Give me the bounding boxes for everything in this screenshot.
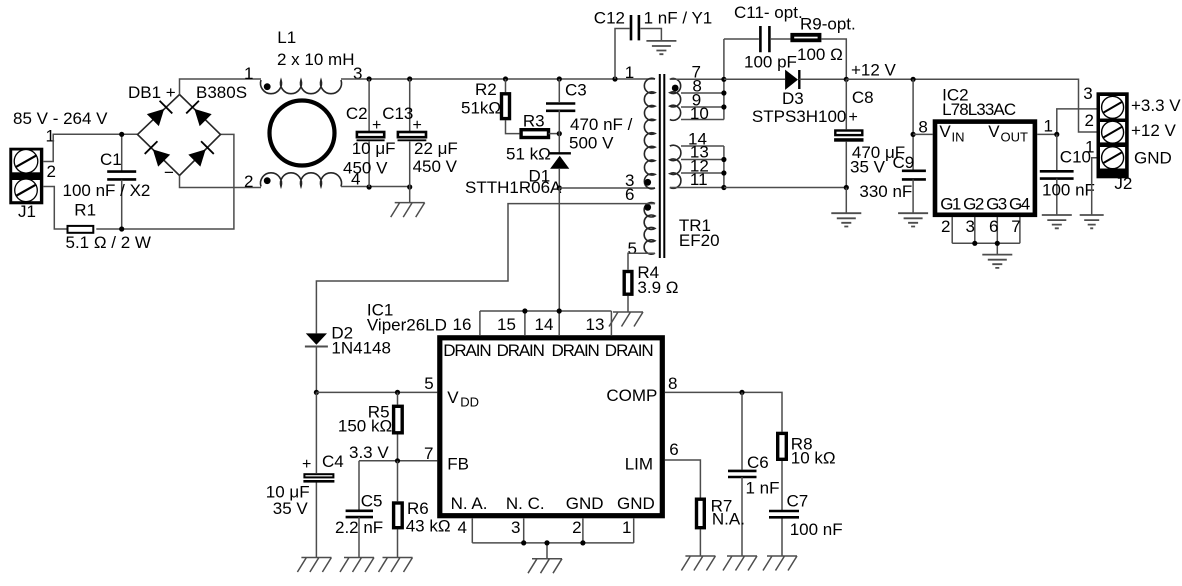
wire +12V rail to J2 pin2 bbox=[846, 79, 1096, 132]
svg-text:C7: C7 bbox=[787, 491, 809, 510]
svg-text:C13: C13 bbox=[382, 104, 413, 123]
svg-text:N. A.: N. A. bbox=[451, 494, 488, 513]
DB1 diode bottom-left bbox=[145, 141, 171, 167]
svg-text:V: V bbox=[939, 122, 951, 141]
node IC1 pin3 bbox=[521, 540, 526, 545]
svg-text:DRAIN: DRAIN bbox=[605, 341, 654, 360]
svg-text:1N4148: 1N4148 bbox=[331, 339, 391, 358]
svg-text:R2: R2 bbox=[475, 80, 497, 99]
svg-text:11: 11 bbox=[690, 170, 708, 189]
resistor R8 bbox=[778, 433, 787, 556]
wire D1 node to drain bus bbox=[558, 188, 560, 311]
secondary bus pins 7-10 bbox=[723, 39, 725, 120]
svg-text:GND: GND bbox=[1134, 149, 1172, 168]
svg-text:2 x 10 mH: 2 x 10 mH bbox=[277, 50, 354, 69]
svg-text:100 nF / X2: 100 nF / X2 bbox=[63, 181, 151, 200]
node drain pin15 bbox=[522, 308, 527, 313]
wire C8 to ground bbox=[845, 188, 847, 214]
svg-text:IN: IN bbox=[952, 130, 965, 145]
svg-text:51 kΩ: 51 kΩ bbox=[506, 145, 551, 164]
resistor R4 bbox=[624, 253, 655, 312]
svg-text:STTH1R06A: STTH1R06A bbox=[465, 178, 562, 197]
svg-text:1: 1 bbox=[1044, 117, 1053, 136]
node pin8 bbox=[721, 90, 726, 95]
node TR1 pin1 / C12 bbox=[612, 76, 617, 81]
svg-text:330 nF: 330 nF bbox=[859, 182, 912, 201]
svg-text:1: 1 bbox=[622, 518, 631, 537]
resistor R5 bbox=[394, 392, 403, 460]
svg-text:3.9 Ω: 3.9 Ω bbox=[637, 278, 678, 297]
node C13 top bbox=[407, 76, 412, 81]
capacitor C12 bbox=[615, 15, 661, 79]
svg-text:V: V bbox=[988, 122, 1000, 141]
svg-text:85 V - 264 V: 85 V - 264 V bbox=[13, 109, 108, 128]
svg-text:35 V: 35 V bbox=[273, 499, 309, 518]
wire Vin stub bbox=[913, 133, 933, 135]
svg-text:1 nF / Y1: 1 nF / Y1 bbox=[644, 9, 713, 28]
svg-text:GND: GND bbox=[566, 494, 604, 513]
svg-text:43 kΩ: 43 kΩ bbox=[406, 517, 451, 536]
op-amp IC2 body bbox=[935, 122, 1035, 215]
node J1 top bbox=[119, 132, 124, 137]
svg-text:3: 3 bbox=[966, 217, 975, 236]
node Vout / C10 bbox=[1054, 132, 1059, 137]
svg-text:R6: R6 bbox=[407, 499, 429, 518]
svg-text:C3: C3 bbox=[565, 81, 587, 100]
svg-text:DRAIN: DRAIN bbox=[443, 341, 491, 360]
node C13 bottom bbox=[407, 184, 412, 189]
wire LIM bbox=[665, 460, 700, 556]
node R3 / C3 bbox=[557, 131, 562, 136]
svg-text:2: 2 bbox=[244, 172, 253, 191]
svg-text:470 nF /: 470 nF / bbox=[570, 115, 633, 134]
svg-text:V: V bbox=[447, 388, 459, 407]
transformer TR1 secondary winding B bbox=[670, 145, 681, 188]
svg-text:500 V: 500 V bbox=[569, 134, 614, 153]
svg-text:DB1 +: DB1 + bbox=[128, 83, 176, 102]
TR1 tap pin 13 bbox=[681, 159, 724, 161]
earth ground C9 bbox=[898, 213, 928, 226]
svg-text:150 kΩ: 150 kΩ bbox=[338, 417, 392, 436]
svg-text:15: 15 bbox=[497, 315, 516, 334]
svg-text:100 pF: 100 pF bbox=[744, 53, 797, 72]
bridge rectifier DB1 diamond bbox=[138, 95, 221, 176]
ground IC1 bbox=[528, 559, 562, 574]
svg-text:R9-opt.: R9-opt. bbox=[800, 15, 856, 34]
svg-text:STPS3H100: STPS3H100 bbox=[752, 107, 847, 126]
svg-text:13: 13 bbox=[586, 315, 605, 334]
resistor R1 bbox=[68, 226, 94, 233]
capacitor C8 electrolytic bbox=[834, 79, 863, 187]
wire secondary return pin11 to C8 bbox=[724, 187, 846, 189]
capacitor C2 electrolytic bbox=[357, 79, 385, 187]
ground C7 bbox=[763, 556, 797, 571]
svg-text:+12 V: +12 V bbox=[1131, 121, 1177, 140]
svg-text:7: 7 bbox=[424, 444, 433, 463]
capacitor C1 bbox=[107, 134, 136, 229]
svg-text:+: + bbox=[372, 117, 381, 134]
node FB / R6 bbox=[395, 458, 400, 463]
svg-text:+: + bbox=[302, 456, 311, 473]
svg-text:J1: J1 bbox=[18, 202, 36, 221]
svg-text:6: 6 bbox=[989, 217, 998, 236]
svg-text:L78L33AC: L78L33AC bbox=[942, 100, 1016, 119]
svg-text:100 Ω: 100 Ω bbox=[797, 45, 843, 64]
wire DC+ rail L1 pin3 to TR1 pin1 bbox=[341, 78, 655, 80]
svg-text:LIM: LIM bbox=[625, 455, 653, 474]
node pin12 bbox=[721, 170, 726, 175]
TR1 tap pin 8 bbox=[681, 92, 724, 94]
capacitor C6 bbox=[728, 392, 757, 556]
svg-text:35 V: 35 V bbox=[850, 158, 886, 177]
TR1 core lines bbox=[660, 74, 665, 258]
svg-text:2: 2 bbox=[572, 518, 581, 537]
TR1 secondary phase dot bbox=[672, 85, 679, 92]
wire TR1 pin6 to D2 bbox=[316, 204, 655, 334]
wire J1 pin1 to bridge AC1 bbox=[43, 134, 137, 161]
svg-text:100 nF: 100 nF bbox=[790, 520, 843, 539]
wire bridge plus to L1 pin1 bbox=[180, 79, 262, 95]
node C9 / Vin bbox=[911, 77, 916, 82]
capacitor C5 bbox=[346, 461, 373, 558]
node C3 top bbox=[557, 76, 562, 81]
TR1 tap pin 7 bbox=[670, 78, 724, 80]
ground R6 bbox=[379, 558, 413, 573]
svg-text:1: 1 bbox=[244, 64, 253, 83]
svg-text:16: 16 bbox=[453, 315, 472, 334]
svg-text:10 kΩ: 10 kΩ bbox=[791, 449, 836, 468]
drain bus bbox=[480, 311, 612, 335]
svg-text:N.A.: N.A. bbox=[712, 510, 745, 529]
svg-text:G1 G2 G3 G4: G1 G2 G3 G4 bbox=[940, 195, 1030, 214]
svg-text:L1: L1 bbox=[277, 28, 296, 47]
capacitor C11 optional bbox=[724, 26, 791, 52]
node pin13 bbox=[721, 157, 726, 162]
svg-text:R3: R3 bbox=[523, 112, 545, 131]
connector J2 bbox=[1097, 92, 1129, 178]
svg-text:100 nF: 100 nF bbox=[1042, 181, 1095, 200]
node C2 bottom bbox=[367, 184, 372, 189]
svg-text:8: 8 bbox=[918, 118, 927, 137]
svg-text:10 μF: 10 μF bbox=[352, 139, 396, 158]
svg-text:6: 6 bbox=[625, 185, 634, 204]
diode D1 bbox=[550, 153, 571, 188]
svg-text:Viper26LD: Viper26LD bbox=[367, 316, 447, 335]
wire COMP bbox=[665, 392, 782, 431]
ground R7 bbox=[681, 556, 715, 571]
svg-text:3: 3 bbox=[353, 64, 362, 83]
ground C6 bbox=[723, 556, 757, 571]
node C8 bottom bbox=[844, 185, 849, 190]
svg-text:−: − bbox=[164, 163, 174, 182]
diode D3 bbox=[724, 70, 846, 90]
TR1 tap pin 11 bbox=[670, 187, 724, 189]
ground primary DC- bbox=[391, 203, 425, 218]
svg-text:+12 V: +12 V bbox=[851, 61, 897, 80]
svg-text:C12: C12 bbox=[594, 9, 625, 28]
transformer TR1 secondary winding A bbox=[670, 79, 681, 121]
svg-text:3: 3 bbox=[1083, 84, 1092, 103]
DB1 diode top-right bbox=[186, 101, 212, 127]
svg-text:EF20: EF20 bbox=[679, 231, 720, 250]
earth ground C12 bbox=[646, 41, 676, 54]
svg-text:N. C.: N. C. bbox=[506, 494, 545, 513]
node R5 top bbox=[395, 390, 400, 395]
wire DC- rail L1 pin4 bbox=[341, 186, 410, 188]
node pin7 bbox=[721, 77, 726, 82]
svg-text:450 V: 450 V bbox=[343, 159, 388, 178]
earth ground C10 bbox=[1042, 215, 1072, 228]
TR1 tap pin 10 bbox=[681, 119, 724, 121]
capacitor C4 electrolytic bbox=[303, 474, 334, 482]
capacitor C13 electrolytic bbox=[398, 79, 427, 187]
ground C5 bbox=[340, 558, 374, 573]
svg-text:+3.3 V: +3.3 V bbox=[1131, 96, 1181, 115]
capacitor C9 bbox=[902, 79, 926, 213]
svg-text:450 V: 450 V bbox=[413, 157, 458, 176]
svg-text:C4: C4 bbox=[322, 452, 344, 471]
svg-text:C1: C1 bbox=[100, 150, 122, 169]
wire D1 node to TR1 pin3 bbox=[559, 187, 655, 189]
ground C4 bbox=[297, 558, 331, 573]
earth ground C8 bbox=[831, 213, 861, 226]
capacitor C7 bbox=[769, 511, 799, 517]
TR1 tap pin 14 bbox=[681, 145, 724, 147]
svg-text:7: 7 bbox=[1011, 217, 1020, 236]
svg-text:J2: J2 bbox=[1114, 174, 1132, 193]
svg-text:5: 5 bbox=[628, 239, 637, 258]
svg-text:22 μF: 22 μF bbox=[414, 139, 458, 158]
resistor R6 bbox=[394, 461, 403, 558]
node Vdd bbox=[314, 390, 319, 395]
node Vin pin8 bbox=[911, 132, 916, 137]
svg-text:R1: R1 bbox=[74, 201, 96, 220]
svg-text:10: 10 bbox=[690, 104, 709, 123]
svg-text:C11- opt.: C11- opt. bbox=[734, 3, 803, 22]
svg-text:B380S: B380S bbox=[196, 83, 247, 102]
TR1 tap pin 12 bbox=[681, 172, 724, 174]
resistor R7 bbox=[697, 499, 705, 528]
svg-text:4: 4 bbox=[458, 518, 467, 537]
svg-text:3: 3 bbox=[511, 518, 520, 537]
wire C13 to ground bbox=[409, 187, 411, 203]
svg-text:DD: DD bbox=[460, 395, 479, 410]
svg-text:COMP: COMP bbox=[606, 386, 657, 405]
svg-text:+: + bbox=[849, 109, 858, 126]
svg-text:5: 5 bbox=[424, 374, 433, 393]
svg-text:C8: C8 bbox=[852, 88, 874, 107]
earth ground IC2 bbox=[982, 255, 1012, 268]
node drain pin14 bbox=[557, 308, 562, 313]
L1 top phase dot bbox=[264, 83, 271, 90]
wire Vout to J2 pin3 bbox=[1037, 109, 1096, 134]
svg-text:1 nF: 1 nF bbox=[746, 479, 780, 498]
node IC2 pin6 bbox=[995, 241, 1000, 246]
transistor IC1 Viper26LD body bbox=[440, 338, 663, 516]
node D1 / TR1 pin3 / drain bbox=[557, 185, 562, 190]
node R2 top bbox=[503, 76, 508, 81]
L1 bottom phase dot bbox=[264, 177, 271, 184]
svg-text:2.2 nF: 2.2 nF bbox=[335, 518, 383, 537]
svg-text:GND: GND bbox=[617, 494, 655, 513]
svg-text:OUT: OUT bbox=[1001, 130, 1029, 145]
wire J1 pin2 to R1 bbox=[43, 187, 66, 230]
TR1 aux phase dot bbox=[644, 204, 651, 211]
IC1 bottom pin stubs bbox=[472, 518, 633, 543]
node C6 top bbox=[739, 390, 744, 395]
wire J2 GND to earth bbox=[1092, 158, 1097, 215]
svg-text:1: 1 bbox=[1085, 138, 1094, 157]
DB1 diode bottom-right bbox=[188, 141, 214, 167]
secondary bus pins 14-11 bbox=[723, 146, 725, 188]
choke L1 top winding bbox=[261, 80, 342, 94]
node IC2 pin3 bbox=[972, 241, 977, 246]
svg-text:6: 6 bbox=[669, 440, 678, 459]
choke L1 bottom winding bbox=[261, 173, 342, 187]
svg-text:C5: C5 bbox=[361, 492, 383, 511]
svg-text:51kΩ: 51kΩ bbox=[461, 99, 501, 118]
DB1 diode top-left bbox=[146, 101, 172, 127]
diode D2 bbox=[305, 333, 328, 392]
svg-text:C9: C9 bbox=[893, 153, 915, 172]
node J1 bottom bbox=[119, 226, 124, 231]
connector J1 bbox=[9, 148, 43, 205]
svg-text:2: 2 bbox=[941, 217, 950, 236]
wire FB rail bbox=[359, 460, 437, 462]
svg-text:8: 8 bbox=[668, 374, 677, 393]
node pin9 bbox=[721, 104, 726, 109]
svg-text:D3: D3 bbox=[782, 89, 804, 108]
IC2 ground bus bbox=[952, 243, 1020, 254]
capacitor C3 bbox=[546, 79, 575, 153]
resistor R2 bbox=[502, 79, 520, 134]
wire bridge minus to L1 pin2 bbox=[180, 176, 262, 188]
node IC1 pin2 bbox=[580, 540, 585, 545]
svg-text:1: 1 bbox=[625, 63, 634, 82]
svg-text:5.1 Ω / 2 W: 5.1 Ω / 2 W bbox=[66, 233, 151, 252]
svg-text:2: 2 bbox=[1085, 111, 1094, 130]
svg-text:C2: C2 bbox=[346, 104, 368, 123]
wire R1 to bridge AC2 bbox=[96, 134, 234, 229]
svg-text:DRAIN: DRAIN bbox=[497, 341, 545, 360]
node IC1 gnd drop bbox=[544, 540, 549, 545]
L1 core circle bbox=[270, 101, 335, 166]
svg-text:2: 2 bbox=[47, 162, 56, 181]
svg-text:DRAIN: DRAIN bbox=[552, 341, 600, 360]
capacitor C10 bbox=[1040, 134, 1074, 215]
resistor R3 bbox=[521, 130, 559, 138]
wire Vdd rail bbox=[316, 391, 437, 393]
transformer TR1 primary winding bbox=[644, 78, 655, 188]
IC1 ground bus bbox=[472, 543, 633, 559]
svg-text:FB: FB bbox=[447, 455, 469, 474]
TR1 primary phase dot bbox=[644, 179, 651, 186]
node +12V / C8 bbox=[844, 77, 849, 82]
TR1 tap pin 9 bbox=[681, 106, 724, 108]
node pin11 bbox=[721, 185, 726, 190]
wire D2 node to C4 bbox=[315, 392, 317, 557]
resistor R9 optional bbox=[792, 35, 846, 80]
svg-text:3.3 V: 3.3 V bbox=[349, 443, 389, 462]
svg-text:+: + bbox=[413, 117, 422, 134]
node C2 top bbox=[367, 76, 372, 81]
svg-text:C6: C6 bbox=[747, 453, 769, 472]
ground R4 bbox=[609, 312, 643, 327]
svg-text:14: 14 bbox=[535, 315, 554, 334]
IC2 bottom pin stubs bbox=[952, 217, 1020, 243]
earth ground J2 bbox=[1080, 215, 1104, 228]
transformer TR1 aux winding bbox=[644, 203, 655, 255]
